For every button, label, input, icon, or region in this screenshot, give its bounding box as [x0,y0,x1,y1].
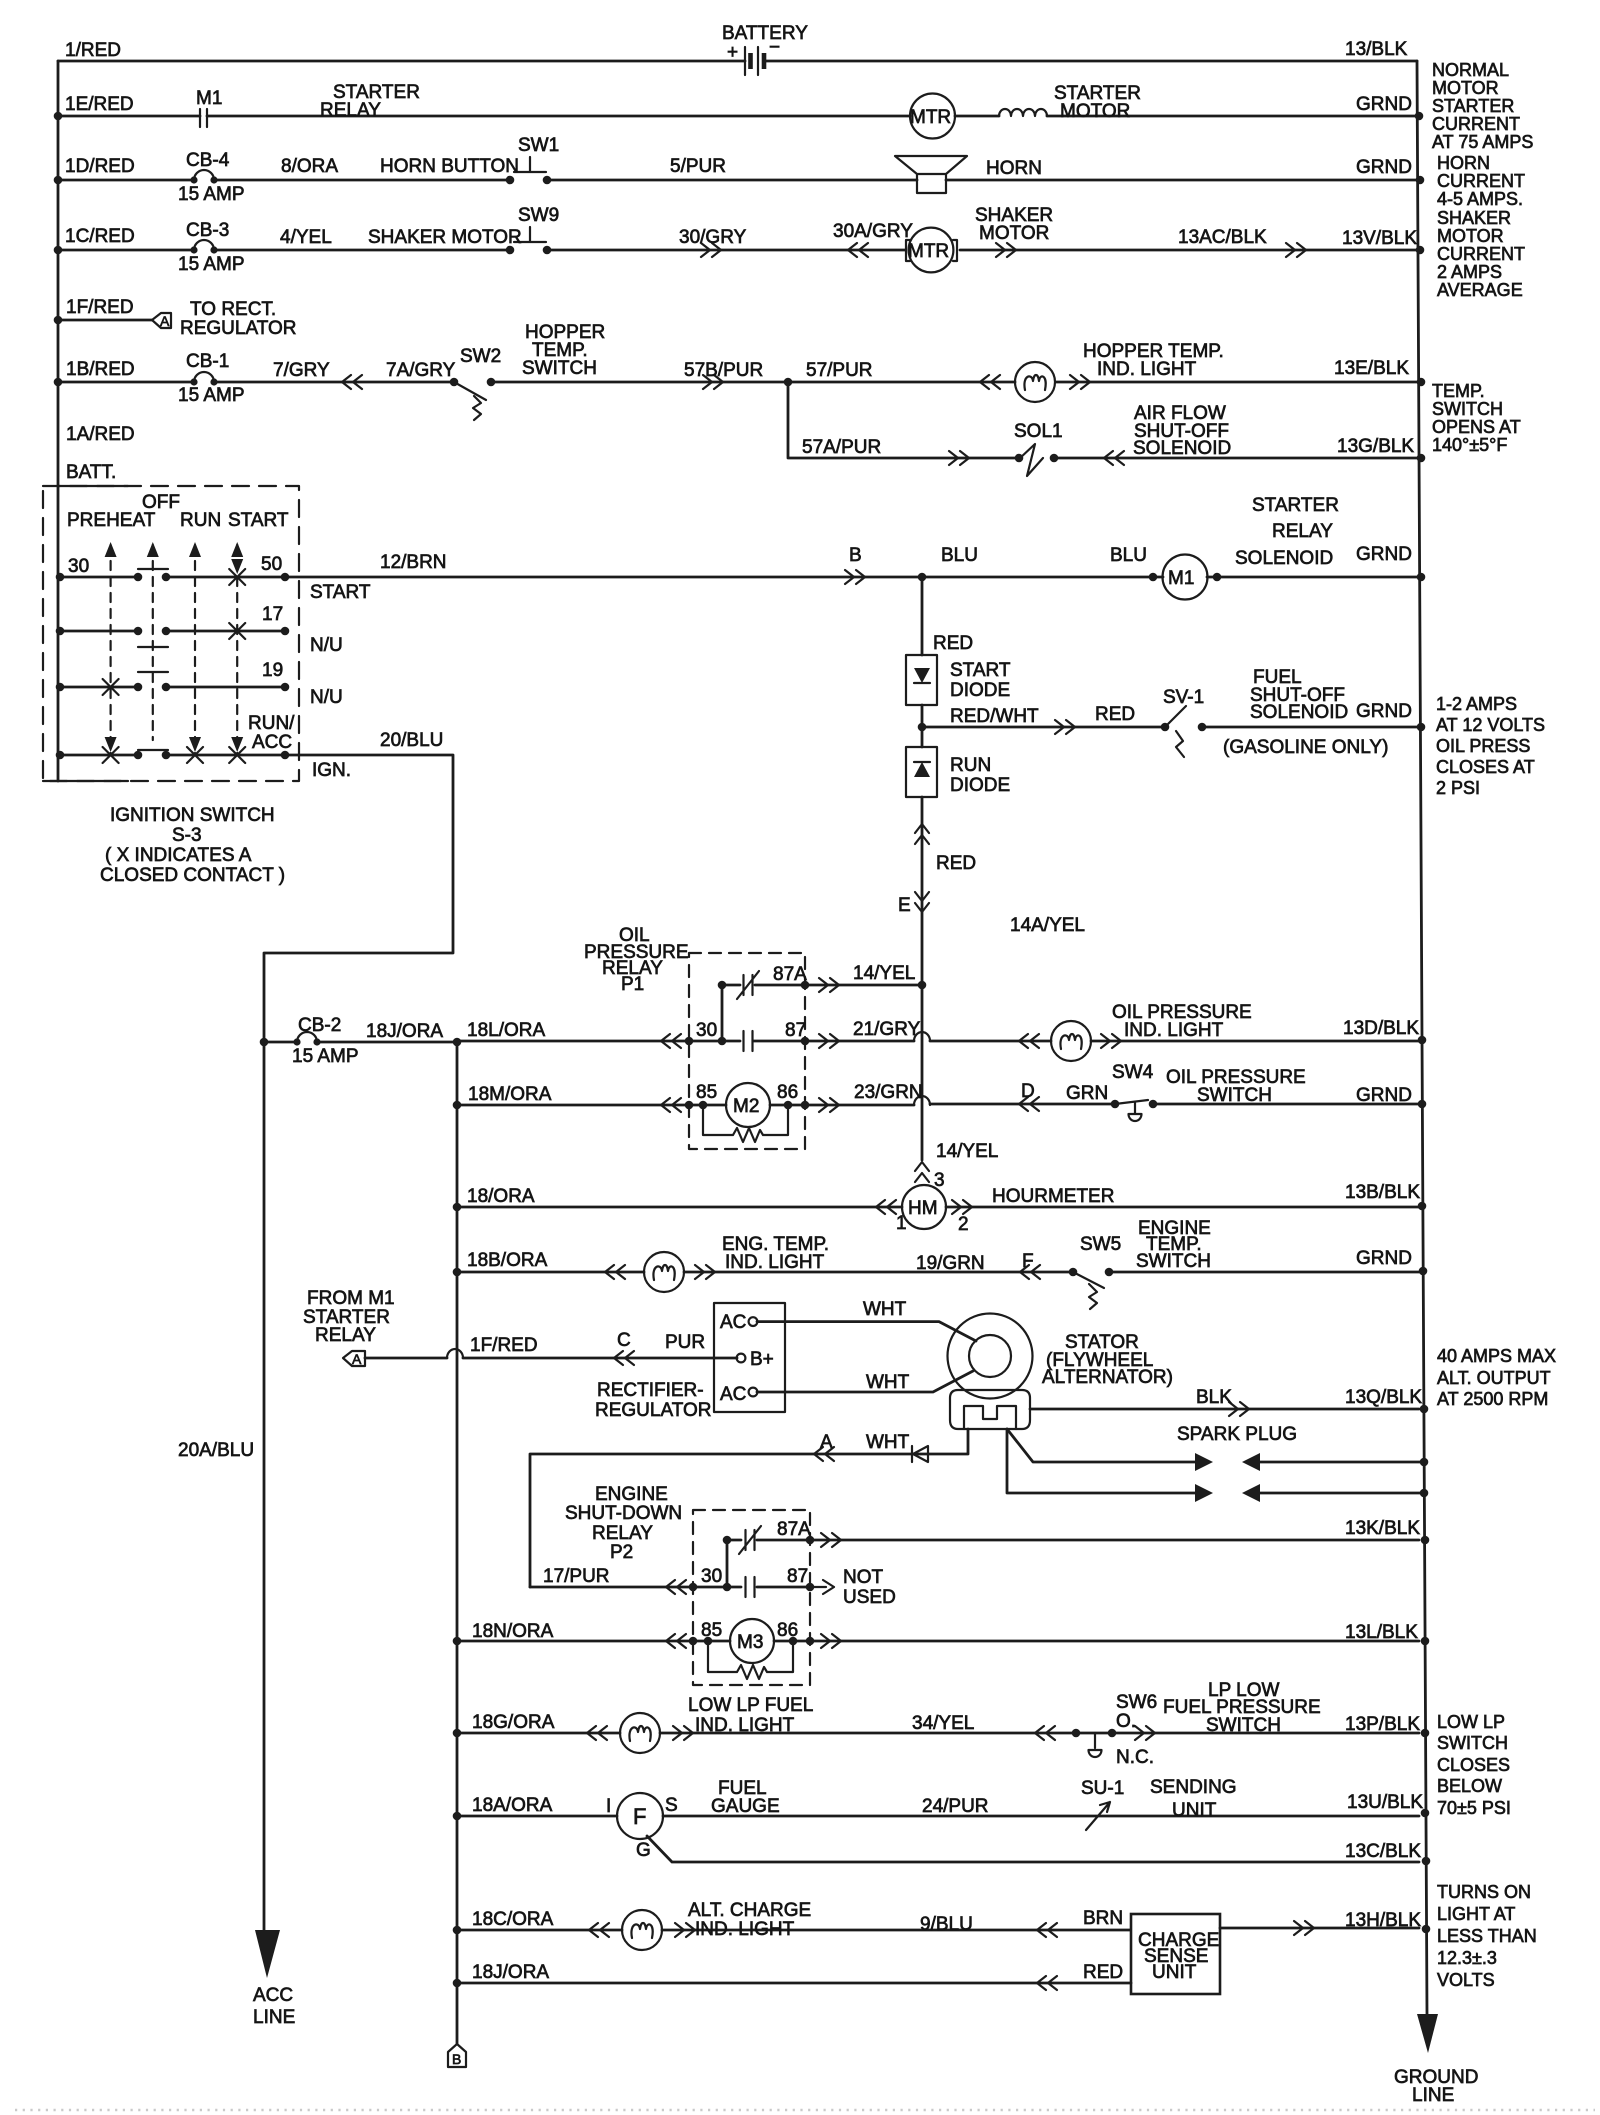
svg-text:M1: M1 [1168,568,1194,589]
svg-text:SWITCH: SWITCH [1136,1251,1211,1272]
svg-text:ALT. OUTPUT: ALT. OUTPUT [1437,1368,1551,1388]
svg-text:SW4: SW4 [1112,1062,1154,1083]
svg-text:F: F [633,1804,646,1829]
svg-text:18/ORA: 18/ORA [467,1186,535,1207]
svg-text:30: 30 [68,556,89,577]
svg-text:BRN: BRN [1083,1908,1123,1929]
svg-text:BELOW: BELOW [1437,1776,1502,1796]
svg-text:18J/ORA: 18J/ORA [366,1021,443,1042]
svg-text:20/BLU: 20/BLU [380,730,443,751]
svg-text:14A/YEL: 14A/YEL [1010,915,1085,936]
svg-text:18B/ORA: 18B/ORA [467,1250,548,1271]
svg-text:RED: RED [1095,704,1135,725]
svg-text:+: + [727,42,738,63]
svg-text:RELAY: RELAY [315,1325,376,1346]
svg-text:14/YEL: 14/YEL [853,963,915,984]
svg-text:M2: M2 [733,1096,759,1117]
svg-text:MOTOR: MOTOR [1060,101,1130,122]
svg-text:RELAY: RELAY [592,1523,653,1544]
svg-text:ACC: ACC [253,1985,293,2006]
svg-text:UNIT: UNIT [1172,1800,1217,1821]
svg-text:85: 85 [701,1620,722,1641]
svg-text:CB-1: CB-1 [186,351,229,372]
svg-text:N/U: N/U [310,687,343,708]
svg-text:LIGHT AT: LIGHT AT [1437,1904,1515,1924]
svg-text:13B/BLK: 13B/BLK [1345,1182,1420,1203]
svg-text:LINE: LINE [1412,2085,1454,2106]
svg-text:BATT.: BATT. [66,462,116,483]
svg-text:START: START [950,660,1011,681]
svg-text:CLOSES AT: CLOSES AT [1436,757,1535,777]
svg-text:REGULATOR: REGULATOR [180,318,297,339]
svg-text:START: START [228,510,289,531]
svg-text:5/PUR: 5/PUR [670,156,726,177]
svg-text:NOT: NOT [843,1567,884,1588]
svg-text:13E/BLK: 13E/BLK [1334,358,1409,379]
svg-text:2 AMPS: 2 AMPS [1437,262,1502,282]
svg-text:N.C.: N.C. [1116,1747,1154,1768]
svg-text:13G/BLK: 13G/BLK [1337,436,1414,457]
svg-text:IND. LIGHT: IND. LIGHT [1124,1020,1224,1041]
svg-text:WHT: WHT [866,1432,910,1453]
svg-text:P1: P1 [621,974,644,995]
svg-text:57/PUR: 57/PUR [806,360,873,381]
svg-text:GRND: GRND [1356,1248,1412,1269]
svg-text:A: A [820,1432,833,1453]
svg-text:1/RED: 1/RED [65,40,121,61]
svg-text:SWITCH: SWITCH [522,358,597,379]
svg-text:A: A [352,1351,362,1367]
svg-text:30: 30 [701,1566,722,1587]
svg-text:DIODE: DIODE [950,775,1010,796]
svg-text:IGNITION SWITCH: IGNITION SWITCH [110,805,275,826]
svg-text:2: 2 [958,1214,969,1235]
svg-text:M3: M3 [737,1632,763,1653]
svg-text:87: 87 [787,1566,808,1587]
svg-text:SWITCH: SWITCH [1206,1715,1281,1736]
svg-text:GRND: GRND [1356,94,1412,115]
svg-text:CURRENT: CURRENT [1432,114,1520,134]
svg-text:18J/ORA: 18J/ORA [472,1962,549,1983]
svg-text:CB-3: CB-3 [186,220,229,241]
svg-text:( X INDICATES A: ( X INDICATES A [105,845,252,866]
svg-text:B: B [452,2051,461,2067]
svg-text:21/GRY: 21/GRY [853,1019,921,1040]
svg-text:HM: HM [908,1198,938,1219]
svg-text:MTR: MTR [910,107,951,128]
svg-text:1D/RED: 1D/RED [65,156,135,177]
svg-text:B+: B+ [750,1349,774,1370]
svg-text:IND. LIGHT: IND. LIGHT [695,1919,795,1940]
svg-text:87A: 87A [773,964,807,985]
svg-text:7/GRY: 7/GRY [273,360,330,381]
svg-text:O.: O. [1116,1711,1136,1732]
svg-text:1C/RED: 1C/RED [65,226,135,247]
svg-text:8/ORA: 8/ORA [281,156,338,177]
svg-text:18M/ORA: 18M/ORA [468,1084,552,1105]
svg-text:40 AMPS MAX: 40 AMPS MAX [1437,1346,1556,1366]
svg-text:4-5 AMPS.: 4-5 AMPS. [1437,189,1523,209]
svg-text:SV-1: SV-1 [1163,687,1204,708]
svg-text:SHAKER: SHAKER [1437,208,1511,228]
svg-text:23/GRN: 23/GRN [854,1082,923,1103]
svg-text:ALTERNATOR): ALTERNATOR) [1042,1367,1173,1388]
svg-text:VOLTS: VOLTS [1437,1970,1495,1990]
svg-text:19: 19 [262,660,283,681]
svg-text:AT 75 AMPS: AT 75 AMPS [1432,132,1533,152]
svg-text:19/GRN: 19/GRN [916,1253,985,1274]
svg-text:GAUGE: GAUGE [711,1796,780,1817]
svg-text:IND. LIGHT: IND. LIGHT [725,1252,825,1273]
svg-text:AC: AC [720,1312,746,1333]
svg-text:13V/BLK: 13V/BLK [1342,228,1417,249]
svg-text:AT 12 VOLTS: AT 12 VOLTS [1436,715,1545,735]
svg-text:E: E [898,895,911,916]
svg-text:STARTER: STARTER [1432,96,1514,116]
svg-text:A: A [160,313,170,329]
svg-text:140°±5°F: 140°±5°F [1432,435,1507,455]
svg-text:OPENS AT: OPENS AT [1432,417,1521,437]
svg-text:13D/BLK: 13D/BLK [1343,1018,1419,1039]
svg-text:SOLENOID: SOLENOID [1133,438,1231,459]
svg-text:17: 17 [262,604,283,625]
svg-text:13Q/BLK: 13Q/BLK [1345,1387,1422,1408]
svg-text:MTR: MTR [908,241,949,262]
svg-text:SPARK PLUG: SPARK PLUG [1177,1424,1297,1445]
svg-text:4/YEL: 4/YEL [280,227,332,248]
svg-text:G: G [636,1840,651,1861]
svg-text:D: D [1021,1081,1035,1102]
svg-text:RELAY: RELAY [1272,521,1333,542]
svg-text:70±5 PSI: 70±5 PSI [1437,1798,1511,1818]
svg-text:REGULATOR: REGULATOR [595,1400,712,1421]
svg-text:RED: RED [1083,1962,1123,1983]
svg-text:B: B [849,545,862,566]
svg-text:50: 50 [261,554,282,575]
svg-text:9/BLU: 9/BLU [920,1914,973,1935]
svg-text:18L/ORA: 18L/ORA [467,1020,545,1041]
svg-text:20A/BLU: 20A/BLU [178,1440,254,1461]
svg-text:1F/RED: 1F/RED [470,1335,538,1356]
svg-text:TO RECT.: TO RECT. [190,299,276,320]
svg-text:13U/BLK: 13U/BLK [1347,1792,1423,1813]
svg-text:NORMAL: NORMAL [1432,60,1509,80]
svg-text:SWITCH: SWITCH [1432,399,1503,419]
svg-text:AC: AC [720,1384,746,1405]
svg-text:RECTIFIER-: RECTIFIER- [597,1380,704,1401]
svg-text:57B/PUR: 57B/PUR [684,360,763,381]
svg-text:SWITCH: SWITCH [1197,1085,1272,1106]
svg-text:RUN: RUN [950,755,991,776]
svg-text:CB-4: CB-4 [186,150,230,171]
svg-text:SOLENOID: SOLENOID [1235,548,1333,569]
svg-text:WHT: WHT [866,1372,910,1393]
svg-text:RUN: RUN [180,510,221,531]
svg-text:SW2: SW2 [460,346,501,367]
svg-text:TURNS ON: TURNS ON [1437,1882,1531,1902]
svg-text:SW6: SW6 [1116,1692,1157,1713]
svg-text:18C/ORA: 18C/ORA [472,1909,554,1930]
svg-text:RUN/: RUN/ [248,713,295,734]
svg-text:13C/BLK: 13C/BLK [1345,1841,1421,1862]
svg-text:SU-1: SU-1 [1081,1778,1124,1799]
svg-text:SHAKER MOTOR: SHAKER MOTOR [368,227,522,248]
svg-text:13L/BLK: 13L/BLK [1345,1622,1418,1643]
svg-text:1B/RED: 1B/RED [66,359,135,380]
svg-text:34/YEL: 34/YEL [912,1713,974,1734]
svg-text:HORN: HORN [986,158,1042,179]
svg-text:LOW LP: LOW LP [1437,1712,1505,1732]
svg-text:57A/PUR: 57A/PUR [802,437,881,458]
svg-text:SOLENOID: SOLENOID [1250,702,1348,723]
svg-text:15 AMP: 15 AMP [178,385,245,406]
svg-text:IGN.: IGN. [312,760,351,781]
svg-text:12.3±.3: 12.3±.3 [1437,1948,1497,1968]
svg-text:15 AMP: 15 AMP [178,184,245,205]
svg-text:LINE: LINE [253,2007,295,2028]
svg-text:13K/BLK: 13K/BLK [1345,1518,1420,1539]
svg-text:15 AMP: 15 AMP [178,254,245,275]
svg-text:(GASOLINE ONLY): (GASOLINE ONLY) [1223,737,1388,758]
svg-text:1: 1 [896,1213,907,1234]
svg-text:18A/ORA: 18A/ORA [472,1795,553,1816]
svg-text:13AC/BLK: 13AC/BLK [1178,227,1267,248]
svg-text:DIODE: DIODE [950,680,1010,701]
svg-text:C: C [617,1330,631,1351]
svg-text:1-2 AMPS: 1-2 AMPS [1436,694,1517,714]
svg-text:SW5: SW5 [1080,1234,1121,1255]
svg-text:BLK: BLK [1196,1387,1232,1408]
svg-text:1A/RED: 1A/RED [66,424,135,445]
svg-text:−: − [769,37,780,58]
svg-text:87: 87 [785,1020,806,1041]
svg-text:START: START [310,582,371,603]
svg-text:CURRENT: CURRENT [1437,244,1525,264]
svg-text:ENGINE: ENGINE [595,1484,668,1505]
svg-text:HOURMETER: HOURMETER [992,1186,1114,1207]
svg-text:85: 85 [696,1082,717,1103]
svg-text:GRND: GRND [1356,157,1412,178]
svg-text:LOW LP FUEL: LOW LP FUEL [688,1695,813,1716]
svg-text:GRND: GRND [1356,1085,1412,1106]
svg-text:GRND: GRND [1356,544,1412,565]
svg-text:PREHEAT: PREHEAT [67,510,156,531]
svg-text:7A/GRY: 7A/GRY [386,360,456,381]
svg-text:86: 86 [777,1620,798,1641]
svg-text:2 PSI: 2 PSI [1436,778,1480,798]
svg-text:HORN BUTTON: HORN BUTTON [380,156,519,177]
svg-text:BLU: BLU [941,545,978,566]
svg-text:RED: RED [936,853,976,874]
svg-text:F: F [1022,1251,1034,1272]
svg-text:GRND: GRND [1356,701,1412,722]
svg-text:CLOSED CONTACT ): CLOSED CONTACT ) [100,865,285,886]
svg-text:BATTERY: BATTERY [722,23,808,44]
svg-text:OIL PRESS: OIL PRESS [1436,736,1530,756]
svg-text:USED: USED [843,1587,896,1608]
svg-text:PUR: PUR [665,1332,705,1353]
svg-text:S: S [665,1795,678,1816]
svg-text:FROM M1: FROM M1 [307,1288,395,1309]
svg-text:13/BLK: 13/BLK [1345,39,1408,60]
svg-text:17/PUR: 17/PUR [543,1566,610,1587]
svg-text:ALT. CHARGE: ALT. CHARGE [688,1900,811,1921]
svg-text:AVERAGE: AVERAGE [1437,280,1523,300]
svg-text:24/PUR: 24/PUR [922,1796,989,1817]
svg-text:SOL1: SOL1 [1014,421,1063,442]
svg-text:SWITCH: SWITCH [1437,1733,1508,1753]
svg-text:MOTOR: MOTOR [1437,226,1504,246]
svg-text:ACC: ACC [252,732,292,753]
svg-text:18G/ORA: 18G/ORA [472,1712,555,1733]
svg-text:CLOSES: CLOSES [1437,1755,1510,1775]
svg-text:86: 86 [777,1082,798,1103]
svg-text:LESS THAN: LESS THAN [1437,1926,1537,1946]
svg-text:TEMP.: TEMP. [1432,381,1485,401]
svg-text:RELAY: RELAY [320,100,381,121]
svg-text:WHT: WHT [863,1299,907,1320]
svg-text:13H/BLK: 13H/BLK [1345,1910,1421,1931]
svg-text:S-3: S-3 [172,825,202,846]
svg-text:30/GRY: 30/GRY [679,227,747,248]
svg-text:CB-2: CB-2 [298,1015,341,1036]
svg-text:1F/RED: 1F/RED [66,297,134,318]
svg-text:30: 30 [696,1020,717,1041]
svg-text:1E/RED: 1E/RED [65,94,134,115]
svg-text:IND. LIGHT: IND. LIGHT [695,1715,795,1736]
svg-text:SHUT-DOWN: SHUT-DOWN [565,1503,682,1524]
svg-text:M1: M1 [196,88,222,109]
svg-text:BLU: BLU [1110,545,1147,566]
svg-text:MOTOR: MOTOR [1432,78,1499,98]
svg-text:14/YEL: 14/YEL [936,1141,998,1162]
svg-text:GRN: GRN [1066,1083,1108,1104]
svg-text:SW9: SW9 [518,205,559,226]
svg-text:RED: RED [933,633,973,654]
svg-text:P2: P2 [610,1542,633,1563]
svg-text:12/BRN: 12/BRN [380,552,447,573]
svg-text:RED/WHT: RED/WHT [950,706,1039,727]
svg-text:15 AMP: 15 AMP [292,1046,359,1067]
svg-text:18N/ORA: 18N/ORA [472,1621,554,1642]
svg-text:AT 2500 RPM: AT 2500 RPM [1437,1389,1548,1409]
svg-text:13P/BLK: 13P/BLK [1345,1714,1420,1735]
svg-text:I: I [606,1796,611,1817]
svg-text:N/U: N/U [310,635,343,656]
svg-text:STARTER: STARTER [1252,495,1339,516]
svg-text:MOTOR: MOTOR [979,223,1049,244]
svg-text:UNIT: UNIT [1152,1962,1197,1983]
svg-text:SENDING: SENDING [1150,1777,1237,1798]
svg-text:CURRENT: CURRENT [1437,171,1525,191]
svg-text:87A: 87A [777,1519,811,1540]
svg-text:SW1: SW1 [518,135,559,156]
svg-text:IND. LIGHT: IND. LIGHT [1097,359,1197,380]
svg-text:30A/GRY: 30A/GRY [833,221,913,242]
svg-text:HORN: HORN [1437,153,1490,173]
